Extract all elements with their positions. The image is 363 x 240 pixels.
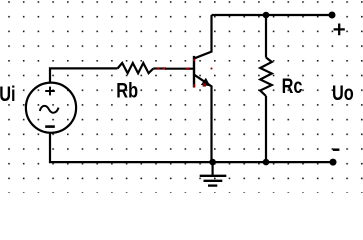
svg-text:Uo: Uo [332,82,354,106]
transistor Q1 [193,15,212,162]
resistor Rb [118,63,167,73]
ground [200,162,227,186]
label - [333,148,340,151]
svg-text:Ui: Ui [0,83,16,107]
svg-text:Rc: Rc [282,75,303,99]
terminal - dot [330,159,337,166]
ac source Ui [26,83,76,133]
terminal + dot [329,12,336,19]
junction ground [209,159,216,166]
svg-text:Rb: Rb [116,79,138,103]
junction Rc bottom [263,159,270,166]
wire bottom rail [50,133,333,162]
wire source top to Rb [50,68,118,82]
junction Rc top [263,12,270,19]
wire Rb to base [165,68,194,70]
label + [334,24,345,36]
base pin red mark [185,68,189,70]
resistor Rc [260,15,272,162]
wire top rail [212,14,333,16]
